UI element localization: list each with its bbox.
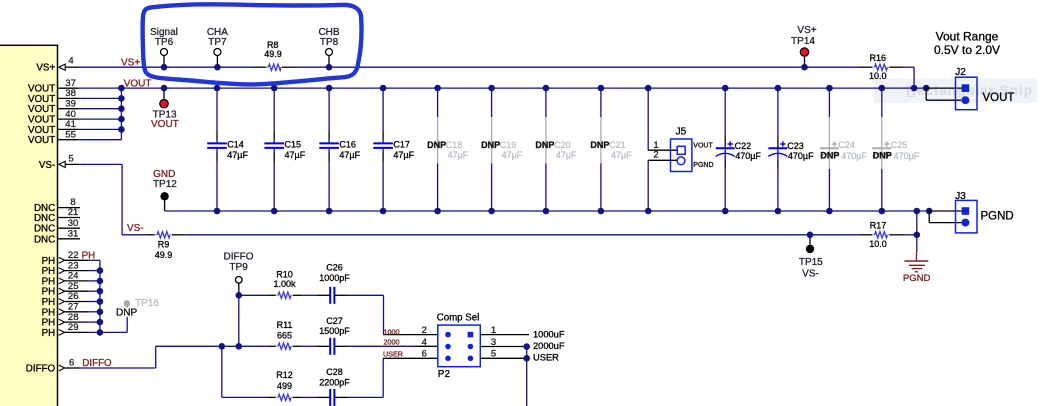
label DNP (C24) <box>820 151 839 161</box>
net label VS- <box>127 223 144 234</box>
label 1000uF <box>533 330 565 340</box>
label R8 <box>267 40 279 50</box>
svg-text:5: 5 <box>68 153 73 164</box>
resistor R17 <box>860 232 903 238</box>
node: C14 bottom junction <box>214 208 221 215</box>
svg-text:4: 4 <box>422 337 427 348</box>
wire: row1 drop to P2 pin 2 <box>384 295 438 334</box>
node: C22 bottom junction <box>722 208 729 215</box>
label R11 <box>277 320 293 330</box>
svg-text:47µF: 47µF <box>285 150 306 160</box>
wire: DIFFO trace from pin 6 <box>80 346 222 368</box>
svg-text:DNP: DNP <box>116 307 137 318</box>
svg-text:C14: C14 <box>227 140 244 150</box>
label C26 <box>326 263 343 273</box>
label PGND (J5 pin 2) <box>693 162 713 169</box>
label DNP (C18) <box>427 140 446 150</box>
wire: R16 output drop to VOUT <box>913 67 915 88</box>
wire: P2 pin 3 out <box>480 346 526 348</box>
net label VOUT <box>124 79 152 90</box>
svg-text:USER: USER <box>383 350 403 359</box>
label J3 <box>955 191 966 202</box>
pin 28 (PH) stub <box>59 312 100 325</box>
svg-text:TP14: TP14 <box>791 36 815 47</box>
svg-text:C17: C17 <box>393 140 410 150</box>
label R16 <box>870 53 887 63</box>
value 470µF (C22) <box>735 151 761 161</box>
pin number 1 (P2) <box>491 325 496 336</box>
svg-text:VOUT: VOUT <box>124 79 152 90</box>
node: C14 top junction <box>214 85 221 92</box>
label Comp Sel <box>437 312 480 323</box>
value 499 (R12) <box>277 381 292 391</box>
svg-text:TP8: TP8 <box>320 37 339 48</box>
node: VOUT bus junction pin 40 <box>118 116 125 123</box>
node: C21 bottom junction <box>598 208 605 215</box>
svg-text:47µF: 47µF <box>227 150 248 160</box>
svg-text:R16: R16 <box>870 53 887 63</box>
value 47µF (C14) <box>227 150 248 160</box>
node: C25 top junction <box>879 85 886 92</box>
pin 22 (PH) stub <box>59 250 100 263</box>
wire: PH bus vertical <box>99 260 101 332</box>
connector J5 <box>671 139 692 172</box>
node: VOUT bus top junction <box>118 85 125 92</box>
wire: J3 pin 2 elbow <box>929 211 961 223</box>
test point TP16 (DNP) <box>124 300 131 307</box>
svg-text:TP6: TP6 <box>155 37 174 48</box>
node: C18 top junction <box>434 85 441 92</box>
svg-text:DNC: DNC <box>34 234 55 245</box>
svg-text:DIFFO: DIFFO <box>26 364 56 375</box>
svg-text:49.9: 49.9 <box>155 250 173 260</box>
svg-text:PGND: PGND <box>981 211 1014 223</box>
svg-text:DNP: DNP <box>873 151 892 161</box>
svg-text:DNP: DNP <box>427 140 446 150</box>
resistor R10 <box>268 292 301 298</box>
label C15 <box>285 140 302 150</box>
capacitor C15 <box>264 88 284 211</box>
label TP14 <box>791 36 815 47</box>
pin number 2 (P2) <box>422 325 427 336</box>
node: C20 top junction <box>543 85 550 92</box>
resistor R9 <box>147 232 185 238</box>
capacitor C26 <box>317 287 347 304</box>
node: C22 top junction <box>722 85 729 92</box>
svg-text:1.00k: 1.00k <box>273 279 296 289</box>
node: TP7 junction on VS+ <box>214 64 221 71</box>
svg-text:C18: C18 <box>446 140 463 150</box>
pin 6 (DIFFO) stub with arrow <box>59 357 80 371</box>
wire: P2 pin 5 out <box>480 357 526 359</box>
svg-text:C28: C28 <box>326 367 343 377</box>
svg-text:TP7: TP7 <box>208 37 227 48</box>
pin 4 (VS+) stub with input arrow <box>59 56 80 71</box>
svg-text:C21: C21 <box>609 140 626 150</box>
node: C25 bottom junction <box>879 208 886 215</box>
svg-text:C24: C24 <box>838 140 855 150</box>
label R10 <box>276 269 293 279</box>
value 47µF (C15) <box>285 150 306 160</box>
node: C15 bottom junction <box>271 208 278 215</box>
wire: row3 branch vertical <box>221 346 223 397</box>
label DNP (C20) <box>535 140 554 150</box>
pin 27 (PH) stub <box>59 302 100 315</box>
svg-text:VOUT: VOUT <box>28 104 55 115</box>
node: C16 top junction <box>326 85 333 92</box>
node: GND rail / J3 junction <box>914 208 921 215</box>
label TP8 <box>320 37 339 48</box>
svg-text:DNP: DNP <box>535 140 554 150</box>
resistor R12 <box>268 394 301 400</box>
node: PH bus junction pin 25 <box>97 288 104 295</box>
label C27 <box>326 316 343 326</box>
pin 37 (VOUT) stub <box>58 78 79 89</box>
test point TP12 <box>160 192 168 200</box>
label J5 <box>676 127 687 138</box>
svg-text:49.9: 49.9 <box>264 49 282 59</box>
pin number 4 (P2) <box>422 337 427 348</box>
node: C19 top junction <box>488 85 495 92</box>
svg-text:2: 2 <box>422 325 427 336</box>
value 470µF (C24) <box>841 151 867 161</box>
node: TP15 junction on VS- <box>807 232 814 239</box>
pin 21 (DNC) stub <box>58 207 81 218</box>
label J2 <box>955 67 966 78</box>
label TP16 <box>135 298 159 309</box>
svg-text:10.0: 10.0 <box>869 239 887 249</box>
svg-text:1000: 1000 <box>384 328 400 337</box>
net label 2000 <box>384 338 400 347</box>
pin 55 (VOUT) stub <box>58 130 122 141</box>
net label VS+ <box>121 57 140 68</box>
label P2 <box>438 369 451 380</box>
test point TP7 <box>214 49 221 68</box>
wire: row3 rise to P2 pin 6 <box>383 358 438 397</box>
label C18 <box>446 140 463 150</box>
wire: USER select vertical <box>526 347 528 406</box>
capacitor C22 (polarized) <box>716 88 735 211</box>
wire: row1 (1000 net) <box>239 294 384 296</box>
value 665 (R11) <box>277 331 292 341</box>
node: J2 branch junction <box>923 85 930 92</box>
test point TP14 <box>800 48 808 67</box>
svg-text:1000pF: 1000pF <box>319 273 350 283</box>
value 49.9 (R9) <box>155 250 173 260</box>
net label USER <box>383 350 403 359</box>
value 47µF (C16) <box>339 150 360 160</box>
svg-text:VOUT: VOUT <box>28 135 55 146</box>
label C17 <box>393 140 410 150</box>
net label DIFFO (at pin 6) <box>82 358 112 369</box>
node: pin 3 junction <box>523 343 530 350</box>
label C24 <box>838 140 855 150</box>
svg-text:2: 2 <box>653 150 658 161</box>
label TP7 <box>208 37 227 48</box>
net label 1000 <box>384 328 400 337</box>
node: C24 top junction <box>826 85 833 92</box>
svg-text:21: 21 <box>68 207 79 218</box>
svg-text:C16: C16 <box>339 140 356 150</box>
svg-text:47µF: 47µF <box>502 150 523 160</box>
wire: P2 pin 1 out <box>480 334 529 336</box>
svg-text:30: 30 <box>68 218 79 229</box>
label C16 <box>339 140 356 150</box>
label DIFFO (TP9) <box>224 252 254 263</box>
svg-text:VOUT: VOUT <box>151 119 179 130</box>
value 1.00k (R10) <box>273 279 296 289</box>
svg-text:C25: C25 <box>891 140 908 150</box>
value 47µF (C18) <box>448 150 469 160</box>
wire: VS- from pin 5 <box>79 164 147 234</box>
wire: J2 pin 2 elbow <box>926 88 961 100</box>
capacitor C20 (DNP, not populated) <box>545 88 547 211</box>
label TP6 <box>155 37 174 48</box>
wire: PGND vertical at right <box>916 211 918 252</box>
svg-text:PH: PH <box>42 328 56 339</box>
label C20 <box>554 140 571 150</box>
label C23 <box>787 141 804 151</box>
wire: row3 (USER net) <box>222 396 383 398</box>
label TP15 <box>799 257 823 268</box>
svg-text:TP16: TP16 <box>135 298 159 309</box>
svg-text:47µF: 47µF <box>339 150 360 160</box>
node: C23 top junction <box>775 85 782 92</box>
capacitor C23 (polarized) <box>768 88 787 211</box>
svg-text:P2: P2 <box>438 369 451 380</box>
test point TP13 <box>160 88 168 108</box>
node: TP14 junction <box>801 64 808 71</box>
label VOUT (J5 pin 1) <box>693 142 713 149</box>
svg-text:10.0: 10.0 <box>869 71 887 81</box>
svg-text:R10: R10 <box>276 269 293 279</box>
value 10.0 (R17) <box>869 239 887 249</box>
svg-text:C19: C19 <box>500 140 517 150</box>
pin number 6 (P2) <box>422 349 427 360</box>
wire: J3 pin 1 <box>929 210 961 212</box>
svg-text:TP12: TP12 <box>153 179 177 190</box>
value 49.9 (R8) <box>264 49 282 59</box>
capacitor C14 <box>207 88 227 211</box>
label USER <box>533 353 559 363</box>
note: Vout Range <box>936 30 999 44</box>
capacitor C18 (DNP, not populated) <box>437 88 439 211</box>
pin 24 (PH) stub <box>59 271 100 284</box>
value 47µF (C19) <box>502 150 523 160</box>
wire: J5 pin 2 to GND rail <box>648 160 677 211</box>
svg-text:TP15: TP15 <box>799 257 823 268</box>
node: C21 top junction <box>598 85 605 92</box>
svg-text:C22: C22 <box>735 141 752 151</box>
svg-text:VS-: VS- <box>39 160 55 171</box>
pin 30 (DNC) stub <box>58 218 81 229</box>
node: VOUT bus junction pin 38 <box>118 95 125 102</box>
label R17 <box>870 220 887 230</box>
connector P2 header <box>438 325 481 367</box>
capacitor C21 (DNP, not populated) <box>600 88 602 211</box>
svg-text:Comp Sel: Comp Sel <box>437 312 480 323</box>
svg-text:DNP: DNP <box>590 140 609 150</box>
svg-text:55: 55 <box>65 130 76 141</box>
svg-text:47µF: 47µF <box>556 150 577 160</box>
label C14 <box>227 140 244 150</box>
snipping-tool watermark band <box>874 78 1037 103</box>
svg-text:VS+: VS+ <box>121 57 140 68</box>
node: C16 bottom junction <box>326 208 333 215</box>
svg-text:VS-: VS- <box>127 223 144 234</box>
svg-text:47µF: 47µF <box>611 150 632 160</box>
svg-text:R9: R9 <box>158 240 170 250</box>
label C28 <box>326 367 343 377</box>
node: J3 branch junction <box>926 208 933 215</box>
value 2200pF (C28) <box>319 377 350 387</box>
pin 29 (PH) stub <box>59 322 100 335</box>
pin 23 (PH) stub <box>59 260 100 273</box>
label C19 <box>500 140 517 150</box>
wire: VS+ rail <box>79 66 914 68</box>
annotation: hand-drawn blue outline around TP6/TP7/R8/TP8 <box>143 4 362 84</box>
svg-text:C26: C26 <box>326 263 343 273</box>
pin 25 (PH) stub <box>59 281 100 294</box>
test point TP9 <box>236 277 243 296</box>
node: C17 top junction <box>380 85 387 92</box>
pin 26 (PH) stub <box>59 291 100 304</box>
pin 5 (VS-) stub with input arrow <box>59 153 80 167</box>
svg-text:TP9: TP9 <box>229 262 248 273</box>
value 470µF (C23) <box>788 151 814 161</box>
svg-text:VS+: VS+ <box>797 25 816 36</box>
capacitor C28 <box>317 389 347 406</box>
label DNP (C25) <box>873 151 892 161</box>
label VS- (TP15) <box>802 268 819 279</box>
node: PH bus junction pin 29 <box>97 329 104 336</box>
svg-text:Vout Range: Vout Range <box>936 30 999 44</box>
wire: J5 pin 1 tap <box>648 88 677 150</box>
svg-text:R17: R17 <box>870 220 887 230</box>
svg-text:VS+: VS+ <box>36 63 55 74</box>
pin 31 (DNC) stub <box>58 228 81 239</box>
node: PH bus junction pin 28 <box>97 319 104 326</box>
svg-text:6: 6 <box>422 349 427 360</box>
svg-text:C27: C27 <box>326 316 343 326</box>
node: VOUT bus junction pin 39 <box>118 105 125 112</box>
label DNP (TP16) <box>116 307 137 318</box>
pin 8 (DNC) stub <box>58 197 81 208</box>
wire: VS- rail <box>185 234 917 236</box>
svg-text:R11: R11 <box>277 320 293 330</box>
svg-text:0.5V to 2.0V: 0.5V to 2.0V <box>934 43 1000 57</box>
node: TP8 junction on VS+ <box>326 64 333 71</box>
svg-text:C23: C23 <box>787 141 804 151</box>
svg-text:39: 39 <box>65 99 76 110</box>
capacitor C27 <box>317 338 347 355</box>
svg-text:DNP: DNP <box>481 140 500 150</box>
svg-text:DNP: DNP <box>820 151 839 161</box>
node: VOUT bus junction pin 41 <box>118 126 125 133</box>
net label PH <box>82 250 96 261</box>
svg-text:DNC: DNC <box>34 224 55 235</box>
pin number 1 (J5) <box>653 140 658 151</box>
label C21 <box>609 140 626 150</box>
value 470µF (C25) <box>894 151 920 161</box>
svg-text:470µF: 470µF <box>841 151 867 161</box>
svg-text:J2: J2 <box>955 67 966 78</box>
svg-text:C15: C15 <box>285 140 302 150</box>
node: row2 junction at R12 branch <box>219 343 226 350</box>
node: TP9 junction row1 <box>236 292 243 299</box>
svg-text:VOUT: VOUT <box>693 142 713 149</box>
svg-text:USER: USER <box>533 353 559 363</box>
svg-text:PGND: PGND <box>903 273 931 284</box>
node: C15 top junction <box>271 85 278 92</box>
label DNP (C19) <box>481 140 500 150</box>
test point TP8 <box>326 49 333 68</box>
svg-text:470µF: 470µF <box>894 151 920 161</box>
label GND (TP12) <box>153 169 175 180</box>
svg-text:665: 665 <box>277 331 292 341</box>
node: C18 bottom junction <box>434 208 441 215</box>
node: C20 bottom junction <box>543 208 550 215</box>
pin 41 (VOUT) stub <box>58 119 122 130</box>
value 10.0 (R16) <box>869 71 887 81</box>
label TP9 <box>229 262 248 273</box>
svg-text:VOUT: VOUT <box>983 92 1015 104</box>
value 1000pF (C26) <box>319 273 350 283</box>
svg-text:DNC: DNC <box>34 213 55 224</box>
label PGND (J3) <box>981 211 1014 223</box>
resistor R8 <box>253 64 296 70</box>
wire: row2 (2000 net) <box>222 345 438 347</box>
label R12 <box>276 370 293 380</box>
svg-text:499: 499 <box>277 381 292 391</box>
value 1500pF (C27) <box>319 326 350 336</box>
label CHB <box>318 27 339 38</box>
label C25 <box>891 140 908 150</box>
svg-text:1000uF: 1000uF <box>533 330 565 340</box>
node: R17 output junction <box>914 232 921 239</box>
svg-text:J5: J5 <box>676 127 687 138</box>
svg-text:470µF: 470µF <box>735 151 761 161</box>
wire: TP9 column <box>238 295 240 346</box>
label R9 <box>158 240 170 250</box>
node: TP6 junction on VS+ <box>161 64 168 71</box>
label DNP (C21) <box>590 140 609 150</box>
capacitor C16 <box>319 88 339 211</box>
svg-text:2000: 2000 <box>384 338 400 347</box>
value 47µF (C17) <box>393 150 414 160</box>
node: row2 junction at TP9 column <box>236 343 243 350</box>
svg-text:J3: J3 <box>955 191 966 202</box>
label 2000uF <box>533 341 565 351</box>
svg-text:4: 4 <box>68 56 73 67</box>
IC pin name labels <box>26 63 56 375</box>
node: PH bus junction pin 26 <box>97 298 104 305</box>
op-amp IC U1 body (partial, left edge) <box>0 45 58 406</box>
connector J3 <box>956 200 978 233</box>
svg-text:PH: PH <box>82 250 96 261</box>
resistor R16 <box>858 64 903 70</box>
label VOUT (TP13) <box>151 119 179 130</box>
label TP13 <box>153 110 177 121</box>
ground PGND <box>904 252 928 272</box>
connector J2 <box>956 77 978 110</box>
svg-text:2200pF: 2200pF <box>319 377 350 387</box>
svg-text:31: 31 <box>68 228 79 239</box>
label Signal <box>150 27 178 38</box>
pin number 2 (J5) <box>653 150 658 161</box>
svg-text:DIFFO: DIFFO <box>82 358 112 369</box>
test point TP15 <box>806 235 814 253</box>
